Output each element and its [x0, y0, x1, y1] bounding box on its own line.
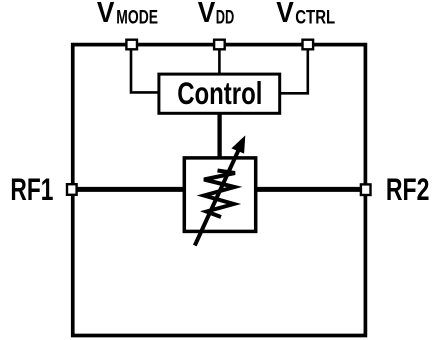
svg-text:V: V [276, 0, 294, 29]
svg-text:RF1: RF1 [10, 171, 53, 207]
svg-text:DD: DD [216, 8, 235, 29]
arrow shaft (variability arrow) [195, 148, 240, 246]
wire Control to attenuator [217, 112, 221, 160]
svg-text:CTRL: CTRL [295, 7, 335, 28]
svg-text:V: V [97, 0, 115, 29]
pad VCTRL [303, 40, 314, 50]
svg-text:V: V [198, 0, 216, 29]
arrowhead [231, 135, 245, 153]
wire RF1-RF2 through-line [71, 187, 367, 192]
wire VDD pad to Control [218, 46, 221, 76]
variable attenuator box [184, 158, 255, 232]
pad RF1 [67, 184, 77, 195]
pad VMODE [126, 40, 137, 50]
svg-text:MODE: MODE [116, 7, 158, 28]
svg-text:Control: Control [177, 76, 262, 111]
pad VDD [214, 40, 225, 50]
resistor zigzag [204, 171, 235, 218]
wire VCTRL pad to Control [279, 46, 308, 93]
svg-text:RF2: RF2 [386, 171, 430, 207]
wire VMODE pad to Control [131, 46, 160, 92]
outer chip boundary box [73, 45, 366, 336]
pad RF2 [361, 184, 371, 195]
control block U1 [159, 74, 280, 113]
